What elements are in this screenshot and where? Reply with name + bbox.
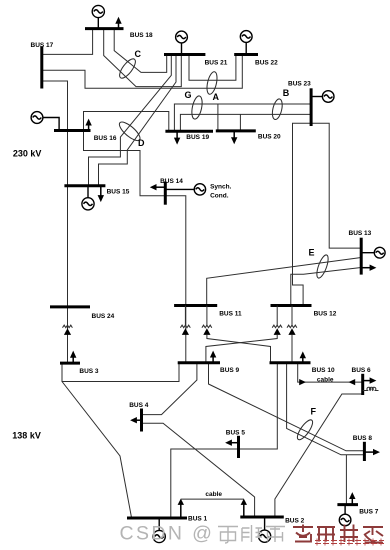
svg-text:BUS 15: BUS 15 xyxy=(107,189,130,196)
bus BUS 1 xyxy=(127,517,187,520)
generator G16 xyxy=(31,112,59,131)
svg-text:230 kV: 230 kV xyxy=(13,149,42,159)
bus BUS 3 xyxy=(60,362,80,365)
watermark small red text xyxy=(315,539,384,546)
transformer group E ellipse xyxy=(315,254,331,280)
load arrow bus 7 xyxy=(349,492,355,505)
svg-text:BUS 1: BUS 1 xyxy=(188,516,208,523)
generator G2 xyxy=(259,517,271,542)
wire 14-16 xyxy=(84,131,166,196)
bus BUS 2 xyxy=(240,516,283,519)
transformer T9-12 xyxy=(272,325,282,335)
wire 17-22 xyxy=(42,55,243,89)
transformer group B ellipse xyxy=(271,98,284,120)
load arrow bus 13 xyxy=(361,265,376,271)
transformer group D ellipse xyxy=(117,119,143,143)
bus BUS 14 xyxy=(164,182,167,205)
wire 17-18 xyxy=(42,29,93,55)
wire 12 to T9-12 upper xyxy=(276,306,278,326)
svg-text:BUS 12: BUS 12 xyxy=(314,310,337,317)
wire 11-13 xyxy=(207,258,362,306)
wire 12-13 xyxy=(291,268,361,306)
transformer group G ellipse xyxy=(190,95,204,120)
transformer group F ellipse xyxy=(295,418,315,442)
wire 18-21 circuit 2 (inner, through C) xyxy=(114,29,167,73)
cable 6-10 xyxy=(298,363,363,385)
svg-text:BUS 13: BUS 13 xyxy=(349,230,372,237)
wire 7-8 xyxy=(345,455,347,505)
cable 1-2 xyxy=(178,499,247,518)
wire 14-11 vertical xyxy=(165,196,186,363)
bus BUS 15 xyxy=(64,184,105,187)
transformer T9-11 xyxy=(180,325,190,335)
wire 16-19 bridge xyxy=(84,112,169,132)
bus BUS 22 xyxy=(234,53,258,56)
svg-text:BUS 5: BUS 5 xyxy=(226,430,246,437)
wire 1-5 xyxy=(171,449,239,518)
wire 11 to T10-11 upper xyxy=(206,306,208,326)
wire 1-3 xyxy=(62,382,132,518)
reactor at bus 6 xyxy=(363,387,379,390)
svg-text:cable: cable xyxy=(317,376,334,383)
svg-text:BUS 21: BUS 21 xyxy=(205,59,228,66)
wire 20 tap 1 xyxy=(217,104,219,131)
svg-text:F: F xyxy=(311,407,317,417)
bus BUS 11 xyxy=(174,304,217,307)
wire 19-20-23 corridor top xyxy=(174,104,311,131)
generator G23 xyxy=(311,91,334,103)
svg-text:cable: cable xyxy=(205,491,222,498)
svg-text:138 kV: 138 kV xyxy=(12,431,41,441)
transformer T10-12 xyxy=(287,325,297,335)
svg-text:BUS 16: BUS 16 xyxy=(94,135,117,142)
wire 11 to T9-11 upper xyxy=(184,306,186,326)
wire 15-21 circuit 1 (through D) xyxy=(89,55,172,186)
generator G15 xyxy=(82,186,94,210)
svg-text:Synch.: Synch. xyxy=(210,183,232,190)
svg-text:BUS 6: BUS 6 xyxy=(352,367,372,374)
wire 2-4 xyxy=(142,423,255,517)
wire 13-23 xyxy=(311,123,361,248)
wire 12-23 xyxy=(293,123,312,305)
load arrow bus 4 xyxy=(130,417,141,423)
svg-text:BUS 7: BUS 7 xyxy=(359,509,379,516)
svg-text:A: A xyxy=(213,92,220,102)
svg-text:BUS 20: BUS 20 xyxy=(258,134,281,141)
wire 18-21 circuit 1 (outer, through C) xyxy=(104,29,182,87)
bus BUS 8 xyxy=(363,442,366,461)
bus BUS 7 xyxy=(337,503,358,506)
bus BUS 23 xyxy=(310,88,313,126)
wire 12 to T10-12 upper xyxy=(291,306,293,326)
wire 8-9 (through F) xyxy=(209,363,365,451)
bus BUS 5 xyxy=(237,436,240,458)
watermark chinese dark red chars (simulated) xyxy=(293,525,383,543)
load arrow bus 3 xyxy=(70,351,76,364)
wire T10-11 to bus 10 (cross) xyxy=(207,335,271,363)
wire 20 tap 2 xyxy=(239,114,241,130)
svg-text:D: D xyxy=(138,138,145,148)
svg-text:BUS 17: BUS 17 xyxy=(31,42,54,49)
svg-text:BUS 18: BUS 18 xyxy=(130,32,153,39)
bus BUS 13 xyxy=(360,238,363,275)
generator G18 xyxy=(92,5,104,28)
load arrow bus 14 xyxy=(150,184,166,190)
wire 5-10 xyxy=(239,363,278,449)
svg-text:BUS 10: BUS 10 xyxy=(312,367,335,374)
bus BUS 9 xyxy=(178,361,220,364)
load arrow bus 9 xyxy=(210,351,216,363)
load arrow bus 5 xyxy=(225,440,238,446)
generator G1 xyxy=(153,518,165,543)
load arrow bus 16 xyxy=(85,119,91,131)
generator G14 synchronous condenser xyxy=(165,184,205,195)
generator G22 xyxy=(240,31,252,55)
bus BUS 20 xyxy=(216,129,256,132)
transformer T3-24 xyxy=(63,325,73,335)
svg-text:Cond.: Cond. xyxy=(210,192,229,199)
bus BUS 6 xyxy=(361,374,364,395)
wire 4-9 xyxy=(142,363,197,415)
wire 17-16-15-24-3 vertical trunk xyxy=(42,81,68,363)
bus BUS 18 xyxy=(85,27,124,30)
transformer group A ellipse xyxy=(205,71,219,95)
wire 8-10 (through F) xyxy=(287,363,365,455)
svg-text:BUS 2: BUS 2 xyxy=(285,518,305,525)
transformer T10-11 xyxy=(202,325,212,335)
wire 3-9 xyxy=(62,363,179,382)
svg-text:E: E xyxy=(309,248,315,258)
bus BUS 12 xyxy=(271,304,312,307)
bus BUS 10 xyxy=(270,361,311,364)
load arrow bus 6 xyxy=(363,377,377,383)
svg-text:BUS 9: BUS 9 xyxy=(220,367,240,374)
load arrow bus 18 xyxy=(115,17,121,29)
wire 19-20-23 corridor bottom xyxy=(180,114,311,131)
generator G7 xyxy=(339,505,351,526)
transformer group C ellipse xyxy=(117,56,138,80)
svg-text:B: B xyxy=(283,88,290,98)
wire T10-12 to bus 10 xyxy=(291,335,293,363)
wire 2-6 xyxy=(275,394,363,517)
svg-text:BUS 19: BUS 19 xyxy=(186,134,209,141)
generator G13 xyxy=(361,247,385,258)
svg-text:C: C xyxy=(135,49,142,59)
bus BUS 21 xyxy=(164,53,205,56)
wire 15-21 circuit 2 (through D) xyxy=(99,55,177,186)
svg-text:BUS 14: BUS 14 xyxy=(160,178,183,185)
svg-text:BUS 11: BUS 11 xyxy=(219,310,242,317)
bus BUS 24 xyxy=(50,305,90,308)
svg-text:CSDN @: CSDN @ xyxy=(120,523,215,545)
load arrow bus 20 xyxy=(231,131,237,144)
svg-text:BUS 4: BUS 4 xyxy=(129,402,149,409)
bus BUS 16 xyxy=(54,129,91,132)
wire T9-12 to bus 9 (cross) xyxy=(206,335,277,363)
watermark chinese gray chars (simulated) xyxy=(218,525,285,543)
svg-text:G: G xyxy=(185,90,192,100)
bus BUS 17 xyxy=(40,46,43,88)
load arrow bus 8 xyxy=(364,449,380,455)
load arrow bus 15 xyxy=(98,186,104,202)
svg-text:BUS 24: BUS 24 xyxy=(92,313,115,320)
generator G21 xyxy=(176,31,188,54)
svg-text:BUS 22: BUS 22 xyxy=(255,59,278,66)
load arrow bus 19 xyxy=(174,131,180,144)
load arrow bus 10 xyxy=(300,351,306,362)
bus BUS 19 xyxy=(165,130,213,133)
svg-text:BUS 3: BUS 3 xyxy=(79,368,99,375)
svg-text:BUS 8: BUS 8 xyxy=(353,435,373,442)
wire 21-22 xyxy=(189,55,236,81)
svg-text:BUS 23: BUS 23 xyxy=(288,81,311,88)
bus BUS 4 xyxy=(140,409,143,432)
